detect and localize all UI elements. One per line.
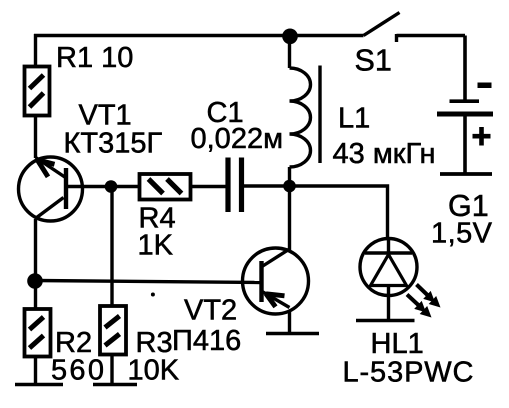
node top junction [282,29,298,45]
svg-text:R1 10: R1 10 [56,42,133,74]
wire top rail [34,34,364,67]
svg-text:43 мкГн: 43 мкГн [333,138,436,170]
switch S1 [364,13,466,43]
wire node down to R3 [110,187,113,307]
led HL1 [360,239,417,321]
svg-text:КТ315Г: КТ315Г [64,128,163,160]
inductor L1 [290,66,321,168]
capacitor C1 [228,158,242,213]
led light arrow 2 [417,285,441,308]
wire VT1 base [66,185,106,188]
svg-text:560: 560 [51,354,104,386]
svg-text:VT1: VT1 [79,99,132,131]
resistor R4 [140,174,191,200]
svg-text:1,5V: 1,5V [431,218,493,250]
ground R2 bar [15,383,63,387]
wire VT2 base [36,281,262,283]
svg-text:L-53PWC: L-53PWC [343,356,474,388]
wire R3 to ground [110,355,113,385]
resistor R2 [25,309,51,357]
led light arrow 1 [407,295,432,318]
ground R3 bar [93,383,137,387]
wire top node to L1 [288,36,291,69]
wire VT2 emitter down [288,310,291,334]
wire S1 to battery [463,36,467,100]
wire node down to VT2 [288,186,291,252]
wire C1 to node [242,184,287,187]
ground HL1 bar [356,319,415,323]
svg-text:0,022м: 0,022м [191,123,284,155]
wire node to HL1 corner [290,186,388,239]
wire node to R2 [34,281,37,310]
noise speck [151,293,155,297]
transistor VT2 [243,248,309,314]
ground VT2 emitter bar [266,332,319,336]
svg-text:L1: L1 [338,102,370,134]
wire node to R4 [111,185,139,188]
wire R1 to VT1 emitter [34,116,37,159]
svg-text:VT2: VT2 [184,295,237,327]
node tank junction [283,180,296,193]
wire L1 to node [288,167,291,186]
transistor VT1 [19,157,83,221]
svg-text:10K: 10K [128,354,180,386]
battery G1 [437,83,493,175]
svg-text:HL1: HL1 [371,328,424,360]
svg-text:1K: 1K [138,230,174,262]
node base junction [105,180,118,193]
wire VT1 collector down [34,219,37,281]
wire R2 to ground [34,357,37,385]
node left lower junction [27,273,43,289]
wire R4 to C1 [191,185,226,188]
resistor R3 [100,306,126,355]
resistor R1 [25,67,50,116]
svg-text:S1: S1 [355,44,392,78]
svg-text:П416: П416 [172,325,241,357]
